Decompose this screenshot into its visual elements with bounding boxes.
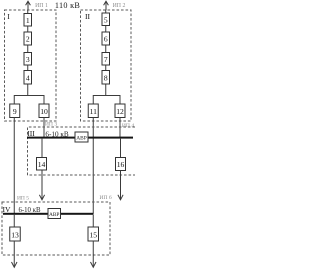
svg-text:13: 13 — [11, 230, 19, 239]
apparatus box 13 — [10, 227, 21, 241]
wire: chain I vertical — [27, 10, 29, 96]
ATS АВР box (section III bus tie) — [75, 132, 88, 142]
svg-text:6: 6 — [104, 35, 108, 44]
wire: bus IV to box 13 — [13, 215, 15, 227]
svg-text:ИП 4: ИП 4 — [122, 123, 134, 129]
svg-text:III: III — [27, 129, 35, 138]
svg-text:ИП 5: ИП 5 — [17, 196, 29, 202]
ATS АВР box (section IV bus tie) — [48, 209, 61, 219]
svg-text:ИП 6: ИП 6 — [99, 195, 111, 201]
apparatus box 11 — [88, 104, 98, 118]
wire + arrow: outgoing feeder from box 16 — [118, 171, 123, 200]
apparatus box 15 — [88, 227, 99, 241]
svg-text:2: 2 — [26, 35, 30, 44]
wire: chain II vertical — [105, 10, 107, 96]
apparatus box 5 — [102, 13, 110, 26]
apparatus box 3 — [24, 53, 32, 66]
svg-text:110 кВ: 110 кВ — [55, 1, 81, 10]
bus IV (6-10 kV busbar) — [3, 213, 94, 215]
svg-text:II: II — [85, 12, 91, 21]
svg-text:5: 5 — [104, 15, 108, 24]
svg-text:14: 14 — [38, 160, 46, 169]
feeder arrow ИП2 (incoming supply line 2) — [104, 1, 109, 10]
svg-text:4: 4 — [26, 74, 30, 83]
apparatus box 2 — [24, 32, 32, 45]
apparatus box 16 — [116, 158, 126, 171]
feeder arrow ИП1 (incoming supply line 1) — [26, 1, 31, 10]
apparatus box 14 — [37, 158, 47, 171]
apparatus box 7 — [102, 53, 110, 66]
svg-text:12: 12 — [116, 107, 124, 116]
svg-text:7: 7 — [104, 55, 108, 64]
apparatus box 12 — [115, 104, 125, 118]
wire + arrow: outgoing feeder from box 15 — [91, 241, 97, 267]
apparatus box 10 — [39, 104, 49, 118]
svg-text:ИП 1: ИП 1 — [35, 3, 48, 9]
wire: bus IV to box 15 — [92, 215, 94, 227]
svg-text:10: 10 — [40, 107, 48, 116]
wire: junction bar right — [93, 96, 120, 105]
wire: box 10 down to bus III — [43, 118, 45, 138]
svg-text:11: 11 — [90, 107, 98, 116]
svg-text:9: 9 — [13, 107, 17, 116]
svg-text:1: 1 — [26, 16, 30, 25]
svg-text:АВР: АВР — [49, 212, 60, 218]
section IV enclosure (dashed) — [2, 202, 110, 255]
svg-text:15: 15 — [89, 230, 97, 239]
apparatus box 4 — [24, 71, 32, 85]
svg-text:8: 8 — [104, 74, 108, 83]
svg-text:16: 16 — [117, 160, 125, 169]
wire: box 11 down to bus IV — [92, 118, 94, 214]
wire + arrow: outgoing feeder from box 13 — [12, 241, 18, 267]
wire: bus III to box 14 — [41, 139, 43, 158]
wire: box 9 down to bus IV — [13, 118, 15, 214]
svg-text:ИП 3: ИП 3 — [45, 122, 57, 128]
apparatus box 1 — [24, 14, 32, 27]
section III enclosure (dashed, open right) — [28, 127, 136, 175]
apparatus box 9 — [10, 104, 20, 118]
svg-text:IV: IV — [2, 205, 11, 214]
section II enclosure (dashed) — [81, 10, 132, 121]
svg-text:3: 3 — [26, 55, 30, 64]
wire: box 12 down to bus III — [119, 118, 121, 138]
apparatus box 6 — [102, 32, 110, 45]
section I enclosure (dashed) — [5, 10, 57, 121]
svg-text:ИП 2: ИП 2 — [113, 3, 126, 9]
bus III (6-10 kV busbar) — [27, 137, 133, 139]
apparatus box 8 — [102, 71, 110, 85]
wire: bus III to box 16 — [120, 139, 122, 158]
wire: junction bar left — [14, 96, 44, 105]
svg-text:АВР: АВР — [76, 135, 87, 141]
wire + arrow: outgoing feeder from box 14 — [39, 170, 44, 200]
